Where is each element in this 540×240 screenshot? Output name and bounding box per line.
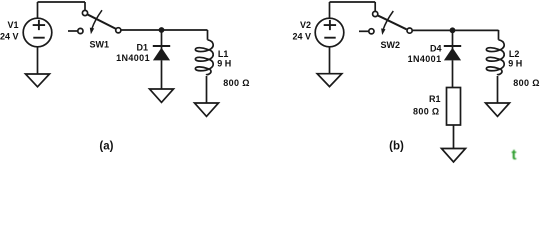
switch SW2 open throw contact: [369, 29, 374, 34]
svg-text:(a): (a): [99, 141, 113, 153]
svg-text:9 H: 9 H: [217, 59, 231, 69]
svg-text:SW2: SW2: [381, 40, 401, 50]
inductor L1 coil: [195, 40, 213, 75]
voltage source V2: [315, 18, 344, 47]
svg-text:t: t: [512, 147, 517, 164]
wire junction to D1: [161, 30, 163, 49]
V1 polarity marks: [33, 20, 45, 38]
wire D4 to R1: [452, 60, 454, 87]
node junction dot D1: [159, 27, 165, 33]
wire SW2 pole lead: [374, 2, 376, 11]
switch SW2 closed throw contact: [407, 28, 412, 33]
wire R1 to ground: [453, 125, 455, 149]
voltage source V1: [23, 18, 52, 47]
svg-text:V1: V1: [7, 20, 18, 30]
svg-text:1N4001: 1N4001: [116, 53, 150, 63]
svg-text:SW1: SW1: [90, 39, 110, 49]
svg-text:24 V: 24 V: [0, 32, 19, 42]
svg-text:D1: D1: [136, 43, 148, 53]
wire V2 bottom lead: [329, 47, 331, 74]
switch SW2 pole contact: [373, 11, 378, 16]
switch SW1 closed throw contact: [116, 28, 121, 33]
wire switch to inductor right: [412, 29, 498, 31]
wire to L2 top: [498, 30, 500, 40]
ground below R1: [442, 149, 466, 163]
resistor R1: [447, 88, 461, 126]
switch SW2 blade: [377, 15, 406, 29]
V2 polarity marks: [324, 20, 336, 38]
switch SW1 open throw contact: [78, 28, 83, 33]
svg-text:D4: D4: [430, 44, 442, 54]
wire junction to D4: [452, 30, 454, 49]
diode D4: [444, 45, 461, 47]
ground below V2: [317, 74, 342, 87]
wire SW2 open throw stub: [359, 30, 369, 32]
node junction dot D4: [450, 27, 456, 33]
svg-text:(b): (b): [389, 141, 404, 153]
svg-text:800 Ω: 800 Ω: [413, 107, 439, 117]
switch SW2 actuation arrow: [383, 11, 393, 29]
wire L2 to ground: [497, 76, 499, 103]
wire D1 to ground: [161, 60, 163, 89]
wire to L1 top: [207, 30, 209, 40]
svg-text:R1: R1: [429, 94, 441, 104]
wire V1 top lead: [37, 2, 39, 18]
svg-text:1N4001: 1N4001: [408, 54, 442, 64]
wire V2 top lead: [329, 2, 331, 18]
wire SW1 open throw stub: [68, 30, 78, 32]
inductor L2 coil: [486, 40, 504, 75]
switch SW1 actuation arrow: [92, 10, 102, 28]
switch SW1 pole contact: [82, 10, 87, 15]
ground below D1: [150, 89, 174, 102]
wire switch to inductor: [121, 29, 208, 31]
ground below L1: [195, 103, 219, 116]
wire top rail right circuit: [330, 1, 376, 3]
svg-text:800 Ω: 800 Ω: [223, 78, 249, 88]
svg-text:800 Ω: 800 Ω: [513, 78, 539, 88]
wire L1 to ground: [206, 76, 208, 103]
svg-text:V2: V2: [300, 20, 311, 30]
diode D1: [153, 45, 170, 47]
svg-text:24 V: 24 V: [292, 32, 311, 42]
ground below L2: [486, 103, 510, 116]
wire V1 bottom lead: [37, 47, 39, 74]
svg-text:9 H: 9 H: [508, 59, 522, 69]
ground below V1: [26, 74, 50, 87]
switch SW1 blade: [87, 14, 116, 29]
wire top rail left circuit: [38, 1, 86, 3]
wire SW1 pole lead: [84, 2, 86, 10]
